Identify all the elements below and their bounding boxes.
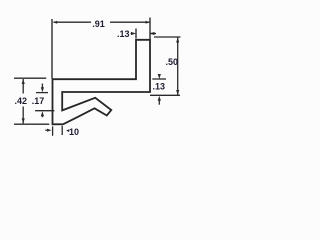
dim .17 top tick [36,92,48,94]
dim .42 top extension tick [14,77,46,79]
dim .10 left tick [52,126,54,135]
dim .10 left arrow line [45,129,48,131]
dim .13 top right stub arrow [150,33,156,35]
profile outline [53,40,151,125]
dim .17 bottom tick [35,110,54,112]
dim .13 right up arrow below tick [158,99,160,105]
svg-text:.42: .42 [15,96,28,106]
dim .91 extension line right [149,18,151,40]
dim .17 down arrow with tail bar [41,84,43,89]
svg-text:.91: .91 [92,19,105,29]
dim .50 line [177,38,179,96]
svg-text:.50: .50 [166,57,179,67]
dim .17 up arrow below tick [41,111,44,116]
dim .50 top extension tick [154,36,181,38]
dim .42 line lower segment with down arrow [22,107,24,124]
dim .91 line left segment with arrow [54,21,92,23]
dim .13 right bottom tick (shared with .50) [150,94,180,96]
svg-text:10: 10 [69,127,79,137]
dim .13 right top tick [152,78,166,80]
dim .13 right down arrow above tick [158,75,160,77]
svg-text:.13: .13 [153,81,166,91]
dim .10 text [66,129,69,132]
dim .42 bottom extension line [14,123,49,125]
dim .42 line upper segment with up arrow [22,79,24,94]
dim .13 top left extension tick [135,29,137,39]
dim .10 right tick [61,126,63,135]
dim .13 top arrow [131,33,134,35]
dim .91 extension line left [51,19,53,79]
svg-text:.13: .13 [117,29,130,39]
dim .91 line right segment with arrow [110,21,149,23]
svg-text:.17: .17 [32,96,45,106]
